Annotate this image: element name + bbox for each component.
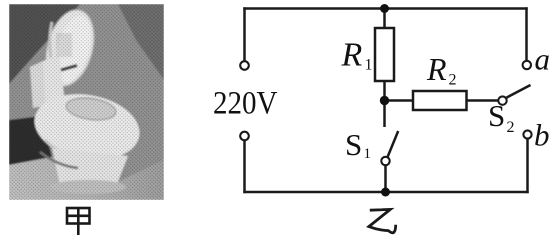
- svg-text:220V: 220V: [213, 86, 278, 122]
- wire left rail upper: [243, 7, 246, 61]
- label 乙 (drawn strokes): [369, 209, 396, 232]
- circuit, panel 乙: [240, 7, 531, 193]
- node bottom junction: [381, 188, 390, 197]
- switch S1 blade: [387, 131, 398, 158]
- terminal source bottom: [240, 132, 249, 141]
- wire R2 to switch S2: [467, 99, 499, 102]
- resistor R1: [375, 28, 394, 81]
- svg-text:2: 2: [449, 72, 457, 89]
- photo of appliance (toilet), panel 甲: [9, 4, 164, 200]
- terminal a: [523, 61, 531, 69]
- node top junction: [380, 4, 389, 13]
- svg-text:1: 1: [364, 146, 372, 162]
- wire R1 to middle node: [383, 81, 386, 101]
- svg-text:S: S: [345, 127, 362, 162]
- wire right rail lower: [526, 139, 529, 194]
- svg-text:R: R: [426, 51, 447, 87]
- wire middle node down to S1 contact: [383, 101, 386, 128]
- svg-text:b: b: [534, 118, 550, 153]
- seat ring: [29, 86, 145, 167]
- switch S1 pivot: [381, 157, 389, 165]
- wire bottom horizontal: [243, 191, 528, 194]
- wire top horizontal: [243, 7, 527, 10]
- wire right rail upper: [525, 7, 528, 61]
- switch S2 blade: [507, 85, 531, 98]
- label 甲 (drawn strokes): [67, 208, 90, 235]
- wire S1 to bottom node: [384, 165, 387, 192]
- terminal source top: [240, 61, 249, 70]
- toilet lid: [38, 5, 102, 92]
- wire middle node to R2: [385, 99, 414, 102]
- svg-text:2: 2: [507, 119, 515, 136]
- control marks on lid: [56, 33, 72, 57]
- tank body: [30, 54, 65, 108]
- svg-text:a: a: [535, 42, 551, 77]
- base: [52, 148, 128, 192]
- svg-text:1: 1: [365, 57, 373, 74]
- wire from top node down to R1: [383, 9, 386, 29]
- node middle junction: [380, 96, 389, 105]
- wire left rail lower: [243, 141, 246, 194]
- switch S2 pivot: [498, 96, 506, 104]
- svg-text:S: S: [488, 98, 505, 133]
- resistor R2: [413, 91, 467, 110]
- svg-text:R: R: [341, 37, 363, 74]
- terminal b: [523, 130, 531, 138]
